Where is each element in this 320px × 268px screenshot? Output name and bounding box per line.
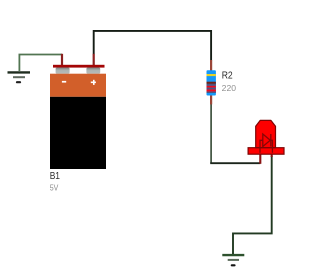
band gap navy 2	[207, 88, 216, 90]
svg-text:B1: B1	[50, 170, 60, 182]
terminal cap negative	[56, 68, 70, 74]
ground (top-left)	[8, 72, 31, 82]
wire ground to battery negative	[19, 55, 62, 72]
svg-text:R2: R2	[222, 70, 233, 82]
plus mark	[91, 82, 96, 84]
leg anode	[259, 150, 261, 164]
LED D1	[248, 120, 284, 163]
band gold	[207, 74, 216, 76]
battery clip bar	[53, 65, 105, 68]
wire resistor R2 to LED anode (vertical)	[210, 104, 212, 163]
diode symbol cathode lead	[271, 140, 273, 153]
diode symbol anode lead	[260, 140, 263, 153]
battery clip lead positive	[93, 54, 95, 66]
body	[207, 70, 216, 95]
dome body	[256, 120, 276, 147]
wire resistor R2 to LED anode (horizontal)	[210, 162, 260, 164]
ground (bottom-right)	[222, 255, 244, 265]
flange	[248, 148, 284, 155]
minus mark	[62, 81, 66, 83]
battery body black	[50, 97, 106, 169]
battery clip lead negative	[61, 54, 63, 66]
leg cathode	[271, 150, 273, 157]
resistor R2	[207, 60, 237, 104]
band brown	[207, 82, 216, 84]
terminal cap positive	[86, 68, 100, 74]
band gap navy 1	[207, 84, 216, 86]
band red 1	[207, 86, 216, 88]
band red 2	[207, 89, 216, 91]
wire LED cathode to ground	[233, 156, 272, 254]
wire battery positive to resistor R2	[94, 31, 211, 61]
svg-text:5V: 5V	[50, 182, 59, 192]
battery top orange	[50, 74, 106, 97]
band gap navy 3	[207, 92, 216, 93]
diode symbol cathode bar	[270, 134, 272, 147]
diode symbol triangle	[263, 134, 271, 147]
svg-text:220: 220	[222, 83, 237, 93]
lead top	[210, 60, 212, 71]
lead bottom	[210, 95, 212, 104]
battery B1	[50, 54, 106, 193]
